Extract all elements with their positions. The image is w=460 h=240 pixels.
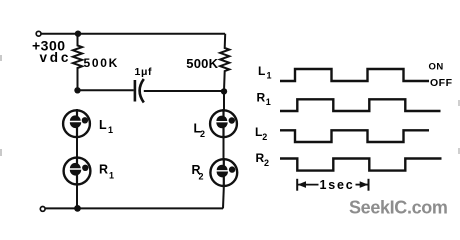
neon lamp L1 [63, 109, 90, 138]
svg-text:L: L [99, 118, 107, 132]
svg-text:L: L [255, 125, 262, 139]
neon lamp R1 [64, 156, 91, 186]
node D junction bottom rail [74, 205, 81, 212]
node A junction top of R left [75, 31, 81, 37]
wire R2 to bottom rail corner [222, 188, 225, 209]
svg-text:2: 2 [262, 132, 267, 142]
svg-text:500K: 500K [186, 56, 218, 71]
svg-text:R: R [257, 91, 266, 105]
neon lamp L2 [210, 109, 237, 139]
wire capacitor to node C [144, 90, 224, 92]
node B junction R left / capacitor [74, 87, 80, 93]
terminal +300 vdc input [36, 31, 41, 36]
svg-text:SeekIC.com: SeekIC.com [349, 198, 448, 218]
dimension line with arrows [297, 184, 318, 186]
svg-text:ON: ON [429, 62, 444, 73]
waveform trace L1 [280, 69, 429, 81]
svg-text:1sec: 1sec [320, 178, 355, 192]
svg-text:1: 1 [109, 171, 114, 181]
svg-text:OFF: OFF [430, 77, 453, 89]
resistor 500K left [73, 34, 82, 90]
scan artifacts edges [0, 55, 2, 61]
wire L2 to R2 [223, 139, 225, 159]
svg-text:2: 2 [264, 158, 269, 168]
waveform trace R2 [280, 159, 442, 171]
svg-text:vdc: vdc [40, 50, 72, 65]
svg-text:L: L [258, 64, 265, 78]
neon lamp R2 [210, 158, 237, 188]
node C junction R right / capacitor [221, 88, 227, 94]
svg-text:1: 1 [266, 97, 271, 107]
dimension 1sec left tick [296, 179, 298, 191]
svg-text:1: 1 [108, 125, 113, 135]
bottom rail wire [45, 207, 223, 209]
dimension 1sec right tick [368, 179, 370, 191]
wire node B to capacitor [78, 89, 134, 91]
svg-text:1μf: 1μf [135, 66, 153, 78]
waveform trace R1 [280, 99, 441, 111]
resistor 500K right [220, 34, 229, 91]
waveform trace L2 [280, 130, 429, 142]
svg-text:1: 1 [267, 70, 272, 80]
wire node C to lamp L2 [223, 91, 225, 109]
wire L1 to R1 [76, 138, 78, 157]
svg-text:500K: 500K [84, 56, 120, 70]
svg-text:2: 2 [200, 129, 205, 139]
wire top rail [41, 33, 225, 35]
terminal bottom return [40, 207, 45, 212]
svg-text:2: 2 [199, 172, 204, 182]
capacitor C1 1uf [134, 80, 137, 102]
wire R1 to bottom rail [76, 186, 78, 208]
svg-text:R: R [99, 163, 108, 177]
